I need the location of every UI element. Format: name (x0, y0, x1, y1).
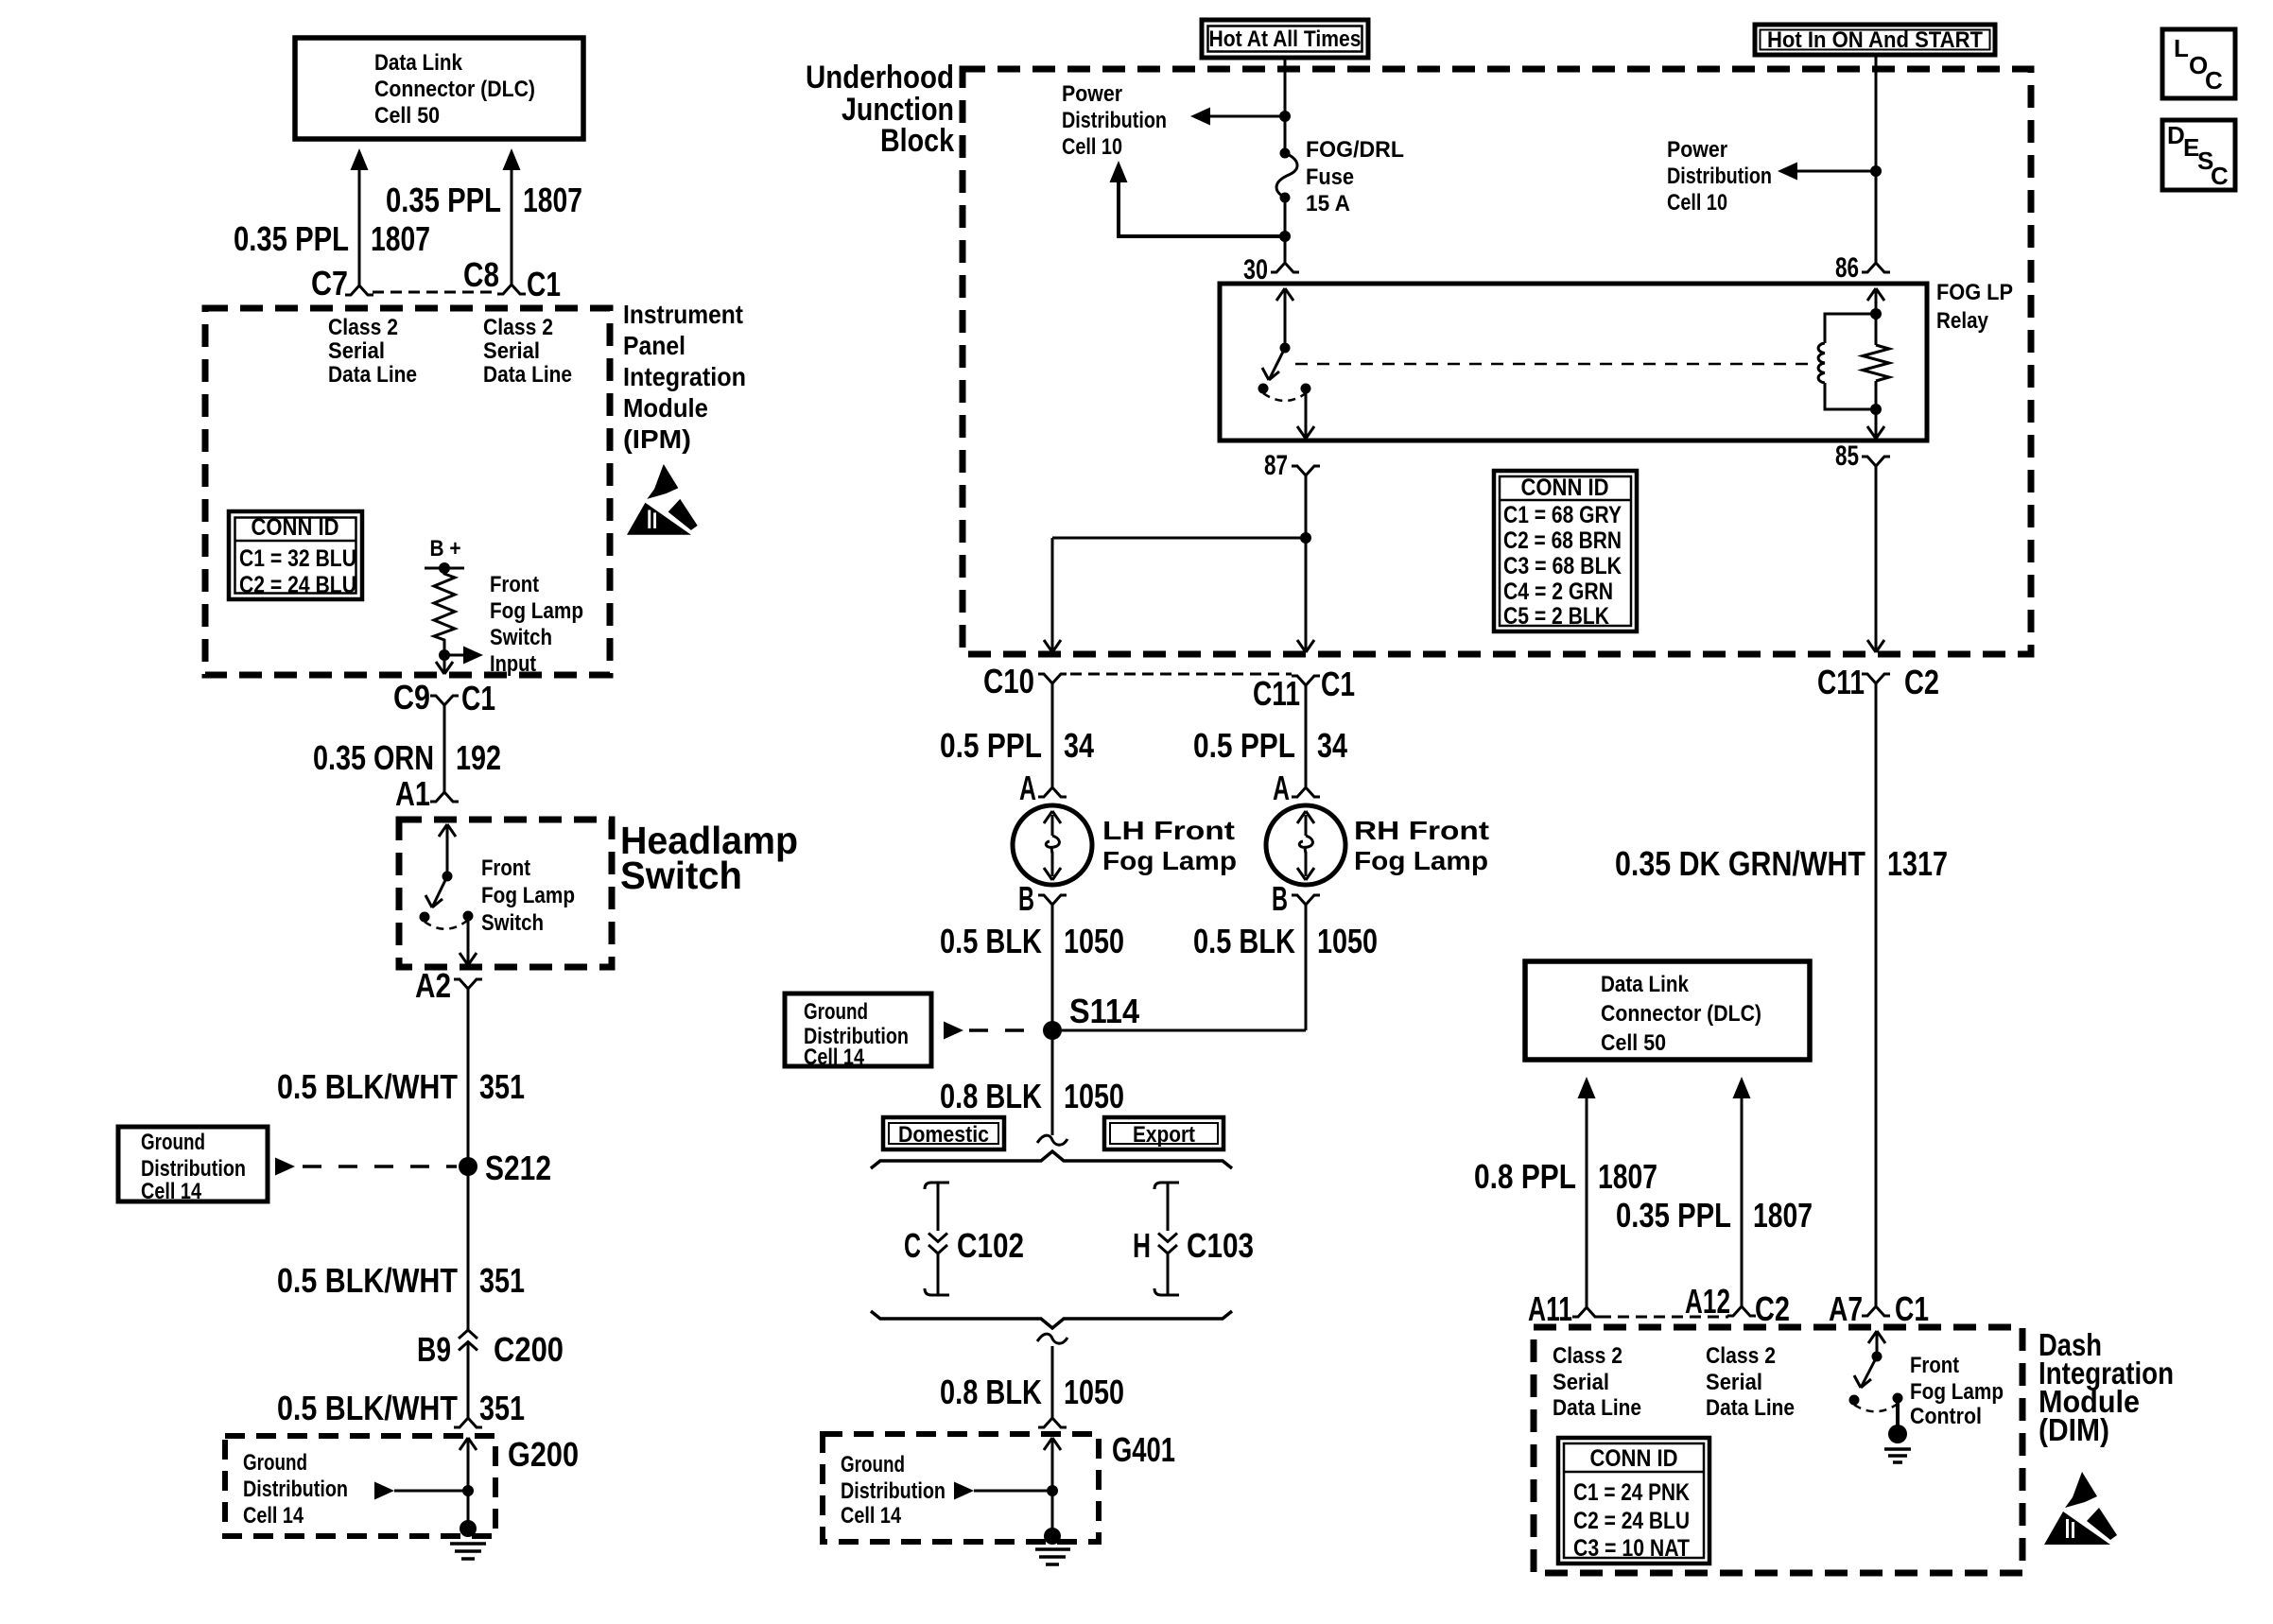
svg-text:C102: C102 (957, 1226, 1024, 1265)
relay coil (inductor) (1818, 314, 1876, 409)
label 0.35 PPL 1807 (A12) (1616, 1196, 1813, 1235)
wire C10 to LH fog lamp (1051, 683, 1054, 786)
arrow: to power distribution cell 10 (up) (1110, 161, 1286, 238)
svg-text:87: 87 (1264, 450, 1288, 481)
svg-text:C11: C11 (1253, 674, 1300, 713)
svg-text:Cell 14: Cell 14 (243, 1503, 304, 1529)
text Power Distribution Cell 10 (left) (1062, 81, 1167, 160)
svg-text:Fog Lamp: Fog Lamp (490, 598, 583, 624)
wire: export option branch (1154, 1183, 1179, 1295)
relay switch common (1276, 288, 1293, 354)
connector A12 / C2 (1685, 1282, 1790, 1328)
svg-text:Class 2: Class 2 (483, 315, 553, 340)
svg-text:1050: 1050 (1064, 1373, 1124, 1411)
svg-text:Cell 10: Cell 10 (1062, 134, 1122, 160)
label 0.5 PPL 34 (RH) (1193, 726, 1347, 765)
svg-text:A12: A12 (1685, 1282, 1730, 1321)
label 0.8 BLK 1050 (upper) (940, 1077, 1124, 1115)
module box: Underhood Junction Block (963, 69, 2031, 654)
svg-text:Distribution: Distribution (141, 1156, 246, 1182)
box: Data Link Connector (DLC) Cell 50 (top-left) (295, 38, 583, 139)
relay switch output (1297, 389, 1314, 439)
svg-text:C2: C2 (1904, 663, 1939, 701)
svg-text:Cell 14: Cell 14 (141, 1179, 202, 1204)
wire: ignition feed (1875, 55, 1878, 262)
svg-text:Integration: Integration (623, 362, 746, 391)
svg-text:C3 = 68 BLK: C3 = 68 BLK (1503, 553, 1622, 579)
text Front Fog Lamp Switch Input (490, 572, 583, 677)
svg-text:C11: C11 (1817, 663, 1865, 701)
svg-text:0.35 PPL: 0.35 PPL (1616, 1196, 1731, 1235)
svg-text:Serial: Serial (328, 338, 385, 364)
svg-text:C1 = 32 BLU: C1 = 32 BLU (239, 545, 356, 572)
relay box: FOG LP Relay (1220, 284, 1927, 441)
svg-text:351: 351 (479, 1261, 525, 1300)
connector C11 / C2 (relay 85) (1817, 663, 1939, 701)
ground: front fog lamp control (1884, 1398, 1911, 1462)
pin B (RH) (1272, 879, 1320, 918)
label 0.35 PPL 1807 (C7 wire) (234, 219, 430, 258)
lamp: LH Front Fog Lamp (1013, 805, 1092, 885)
ground box: Ground Distribution Cell 14 (G200) (225, 1435, 579, 1536)
svg-text:1807: 1807 (1753, 1196, 1813, 1235)
label Headlamp Switch (620, 819, 798, 897)
svg-text:B: B (1018, 879, 1034, 918)
brace: option merge bottom (871, 1311, 1232, 1328)
arrow: ground distribution tie (G401) (954, 1482, 1058, 1500)
svg-text:C4 = 2 GRN: C4 = 2 GRN (1503, 579, 1613, 605)
svg-text:CONN ID: CONN ID (1590, 1445, 1678, 1472)
svg-text:Distribution: Distribution (1062, 108, 1167, 133)
svg-text:Distribution: Distribution (1667, 164, 1772, 189)
wire branch to C10 (1052, 538, 1306, 652)
wire: switch output to A2 (460, 916, 477, 965)
label 0.35 PPL 1807 (C8 wire) (386, 181, 582, 219)
svg-text:Hot In ON And START: Hot In ON And START (1767, 27, 1983, 53)
svg-text:B: B (1272, 879, 1288, 918)
svg-text:0.5 PPL: 0.5 PPL (940, 726, 1042, 765)
svg-text:Front: Front (481, 855, 530, 881)
node: fuse output junction (1279, 231, 1291, 242)
svg-text:A: A (1273, 769, 1290, 807)
svg-text:A: A (1019, 769, 1036, 807)
connector A1 (395, 774, 459, 813)
svg-text:Power: Power (1667, 137, 1727, 163)
wire: domestic option branch (925, 1183, 949, 1295)
wire A2 to S212 to B9 (467, 989, 470, 1330)
wire: headlamp switch input arrow (439, 824, 456, 876)
ground G401 (1035, 1491, 1070, 1564)
switch: front fog lamp switch (420, 872, 474, 929)
node: switch input junction (439, 649, 450, 661)
label 0.5 BLK 1050 (RH) (1193, 922, 1378, 960)
svg-text:0.5 BLK: 0.5 BLK (940, 922, 1042, 960)
label LH Front Fog Lamp (1102, 816, 1237, 875)
label 0.8 PPL 1807 (1474, 1157, 1657, 1196)
svg-text:Class 2: Class 2 (1706, 1343, 1776, 1369)
node: power distribution tap (right) (1870, 165, 1882, 177)
svg-text:RH Front: RH Front (1354, 816, 1489, 845)
svg-text:C2 = 24 BLU: C2 = 24 BLU (239, 572, 356, 598)
svg-text:0.5 BLK/WHT: 0.5 BLK/WHT (277, 1261, 458, 1300)
node S114 splice (1043, 992, 1139, 1040)
label 0.5 BLK/WHT 351 (lower) (277, 1389, 525, 1427)
svg-text:G401: G401 (1112, 1430, 1175, 1469)
connector C103 (pin H) (1133, 1226, 1254, 1265)
lamp: RH Front Fog Lamp (1266, 805, 1345, 885)
svg-text:A1: A1 (395, 774, 430, 813)
text Ground Distribution Cell 14 (G200) (243, 1450, 348, 1529)
text Front Fog Lamp Switch (481, 855, 575, 936)
svg-text:Cell 14: Cell 14 (841, 1503, 902, 1529)
svg-text:Fog Lamp: Fog Lamp (481, 883, 575, 908)
connector at G401 (1038, 1418, 1067, 1427)
wire LH lamp to S114 (1051, 905, 1054, 1030)
svg-text:Switch: Switch (620, 854, 742, 897)
label RH Front Fog Lamp (1354, 816, 1489, 875)
pin B (LH) (1018, 879, 1067, 918)
svg-text:0.8 PPL: 0.8 PPL (1474, 1157, 1576, 1196)
connector body dashed line A11-A12 (1600, 1316, 1728, 1319)
dashed reference to S212 (275, 1158, 457, 1176)
connector C9 / C1 (393, 678, 495, 717)
connector body dashed line C10-C11 (1070, 673, 1292, 676)
svg-text:A11: A11 (1528, 1289, 1572, 1328)
svg-text:0.35 PPL: 0.35 PPL (234, 219, 349, 258)
svg-text:0.8 BLK: 0.8 BLK (940, 1077, 1042, 1115)
box: Ground Distribution Cell 14 (S212) (118, 1127, 268, 1204)
option box: Domestic (883, 1117, 1004, 1149)
svg-text:Switch: Switch (481, 910, 544, 936)
pin A (RH) (1273, 769, 1320, 807)
wire into G401 (1044, 1438, 1061, 1491)
svg-text:Export: Export (1133, 1122, 1195, 1148)
connector A7 / C1 (1829, 1289, 1929, 1328)
arrow: ground distribution tie (G200) (374, 1482, 474, 1500)
svg-text:1807: 1807 (371, 219, 430, 258)
wire to G401 (1051, 1346, 1054, 1417)
pin 86 (1835, 252, 1890, 284)
svg-text:Connector (DLC): Connector (DLC) (1601, 1001, 1761, 1027)
svg-text:C: C (2205, 66, 2223, 95)
svg-text:Switch: Switch (490, 625, 552, 650)
svg-text:Ground: Ground (243, 1450, 307, 1476)
ground box: Ground Distribution Cell 14 (G401) (823, 1430, 1175, 1542)
svg-text:Input: Input (490, 651, 536, 677)
svg-text:Serial: Serial (1706, 1370, 1762, 1395)
wire C9 to A1 (443, 705, 446, 792)
svg-text:Data Link: Data Link (1601, 972, 1690, 997)
svg-text:Front: Front (490, 572, 539, 597)
svg-text:C3 = 10 NAT: C3 = 10 NAT (1573, 1535, 1690, 1562)
box: Ground Distribution Cell 14 (S114) (785, 993, 931, 1070)
svg-text:34: 34 (1064, 726, 1094, 765)
svg-text:0.5 PPL: 0.5 PPL (1193, 726, 1295, 765)
wire A11 to DLC with arrow (1578, 1077, 1596, 1307)
connector C11 / C1 (1253, 665, 1355, 713)
svg-text:LH Front: LH Front (1102, 816, 1235, 845)
relay switch blade (1262, 348, 1285, 380)
connector C7 (311, 264, 373, 302)
svg-text:192: 192 (456, 738, 501, 777)
svg-text:0.5 BLK/WHT: 0.5 BLK/WHT (277, 1389, 458, 1427)
wire 85 out of UJB (1867, 466, 1884, 652)
svg-text:C1 = 24 PNK: C1 = 24 PNK (1573, 1479, 1690, 1506)
text Front Fog Lamp Control (1910, 1353, 2004, 1429)
svg-text:C8: C8 (463, 255, 499, 294)
svg-text:Fog Lamp: Fog Lamp (1354, 846, 1488, 875)
svg-text:C5 = 2 BLK: C5 = 2 BLK (1503, 603, 1609, 630)
text Ground Distribution Cell 14 (G401) (841, 1452, 946, 1529)
svg-text:C10: C10 (983, 662, 1034, 700)
text Power Distribution Cell 10 (right) (1667, 137, 1772, 216)
svg-text:Distribution: Distribution (243, 1477, 348, 1502)
wire 87 splice (1300, 475, 1311, 652)
label Underhood Junction Block (806, 60, 954, 159)
svg-text:351: 351 (479, 1389, 525, 1427)
svg-text:G200: G200 (508, 1435, 579, 1474)
label 0.5 BLK 1050 (LH) (940, 922, 1124, 960)
arrow out of IPM at C9 (436, 662, 453, 674)
svg-text:1807: 1807 (1598, 1157, 1657, 1196)
svg-text:0.5 BLK: 0.5 BLK (1193, 922, 1295, 960)
svg-text:C: C (904, 1226, 921, 1265)
svg-text:C1: C1 (1321, 665, 1355, 703)
arrow out at C10 (1044, 640, 1061, 652)
DESC reference box (2162, 120, 2235, 190)
header box: Hot In ON And START (1755, 25, 1995, 55)
svg-text:Control: Control (1910, 1404, 1982, 1429)
ESD symbol (IPM) (627, 464, 698, 535)
module box: Instrument Panel Integration Module (IPM) (205, 308, 610, 675)
label FOG LP Relay (1936, 280, 2013, 334)
svg-text:Cell 50: Cell 50 (1601, 1030, 1666, 1056)
svg-text:FOG/DRL: FOG/DRL (1306, 137, 1404, 163)
svg-text:CONN ID: CONN ID (252, 514, 339, 541)
svg-text:Front: Front (1910, 1353, 1959, 1378)
svg-text:34: 34 (1317, 726, 1347, 765)
svg-text:C1: C1 (461, 679, 495, 717)
svg-text:1050: 1050 (1064, 922, 1124, 960)
wire C7 to DLC with arrow (351, 148, 369, 285)
svg-text:351: 351 (479, 1067, 525, 1106)
option box: Export (1104, 1117, 1223, 1149)
connector C8 / C1 (463, 255, 561, 303)
svg-text:C: C (2211, 162, 2229, 190)
svg-text:S212: S212 (485, 1149, 551, 1187)
wire A12 to DLC with arrow (1733, 1077, 1751, 1306)
svg-text:Cell 14: Cell 14 (804, 1045, 865, 1070)
pin 87 (1264, 450, 1320, 481)
wire C11 to RH fog lamp (1305, 685, 1308, 786)
svg-text:B +: B + (430, 536, 461, 561)
svg-text:C1: C1 (1895, 1289, 1929, 1328)
connector A2 (415, 966, 482, 1005)
svg-text:FOG LP: FOG LP (1936, 280, 2013, 305)
box: Data Link Connector (DLC) Cell 50 (right) (1525, 961, 1810, 1060)
svg-text:Data Line: Data Line (1553, 1395, 1641, 1421)
text Class 2 Serial Data Line (A11) (1553, 1343, 1641, 1421)
ground G200 (450, 1491, 486, 1559)
svg-text:C200: C200 (494, 1330, 564, 1369)
CONN ID table (IPM) (229, 511, 362, 599)
svg-text:1050: 1050 (1317, 922, 1378, 960)
wire: switch input to output arrow (444, 645, 465, 673)
header box: Hot At All Times (1202, 20, 1368, 58)
text Class 2 Serial Data Line (C8) (483, 315, 572, 388)
svg-text:1807: 1807 (523, 181, 582, 219)
relay coil output (1867, 404, 1884, 439)
wire S114 down (1051, 1030, 1054, 1135)
svg-text:Module: Module (623, 393, 708, 423)
resistor: front fog lamp switch input pull-up (434, 568, 455, 645)
svg-text:Class 2: Class 2 (1553, 1343, 1622, 1369)
svg-text:Ground: Ground (804, 999, 868, 1025)
relay contacts (1258, 384, 1311, 402)
svg-text:C2 = 24 BLU: C2 = 24 BLU (1573, 1508, 1690, 1534)
svg-text:0.8 BLK: 0.8 BLK (940, 1373, 1042, 1411)
fuse FOG/DRL 15 A (1276, 148, 1297, 203)
pin A (LH) (1019, 769, 1067, 807)
svg-text:Block: Block (880, 123, 954, 159)
wire: fuse output (1284, 198, 1287, 262)
wire C8-C1 to DLC with arrow (503, 148, 521, 285)
pin 30 (1243, 254, 1299, 285)
wire break symbol (lower) (1037, 1334, 1067, 1343)
node S212 splice (459, 1149, 551, 1187)
connector at G200 (454, 1418, 482, 1427)
wire C2 to DIM A7 (1875, 683, 1878, 1305)
connector B9 / C200 (417, 1330, 564, 1369)
text FOG/DRL Fuse 15 A (1306, 137, 1404, 216)
svg-text:Connector (DLC): Connector (DLC) (374, 77, 535, 102)
label 0.35 ORN 192 (313, 738, 501, 777)
svg-text:A2: A2 (415, 966, 451, 1005)
svg-text:0.5 BLK/WHT: 0.5 BLK/WHT (277, 1067, 458, 1106)
connector C102 (pin C) (904, 1226, 1024, 1265)
svg-text:Fuse: Fuse (1306, 164, 1354, 190)
svg-text:Distribution: Distribution (841, 1478, 946, 1504)
label Instrument Panel Integration Module (IPM) (623, 300, 746, 454)
svg-text:Relay: Relay (1936, 308, 1989, 334)
svg-text:A7: A7 (1829, 1289, 1863, 1328)
svg-text:CONN ID: CONN ID (1521, 475, 1609, 501)
connector C10 (983, 662, 1067, 700)
svg-text:Power: Power (1062, 81, 1122, 107)
svg-text:0.35 PPL: 0.35 PPL (386, 181, 501, 219)
svg-text:0.35 ORN: 0.35 ORN (313, 738, 434, 777)
svg-text:Cell 50: Cell 50 (374, 103, 440, 129)
svg-text:D: D (2167, 121, 2185, 149)
node: power distribution tap (1279, 111, 1291, 122)
svg-text:Data Line: Data Line (483, 362, 572, 388)
svg-text:Fog Lamp: Fog Lamp (1102, 846, 1237, 875)
svg-text:Fog Lamp: Fog Lamp (1910, 1379, 2004, 1405)
connector A11 (1528, 1289, 1601, 1328)
module box: Headlamp Switch (399, 820, 612, 967)
arrow: to power distribution cell 10 (right) (1778, 163, 1876, 181)
svg-text:L: L (2174, 34, 2189, 62)
svg-text:C1 = 68 GRY: C1 = 68 GRY (1503, 502, 1622, 528)
svg-text:B9: B9 (417, 1330, 451, 1369)
svg-text:30: 30 (1243, 254, 1268, 285)
svg-text:Cell 10: Cell 10 (1667, 190, 1727, 216)
arrowhead: switch input signal (463, 647, 483, 665)
wire into G200 (460, 1438, 477, 1491)
CONN ID table (DIM) (1558, 1438, 1709, 1564)
brace: option split top (871, 1151, 1232, 1168)
svg-text:0.35 DK GRN/WHT: 0.35 DK GRN/WHT (1615, 844, 1865, 883)
text Class 2 Serial Data Line (A12) (1706, 1343, 1795, 1421)
switch: front fog lamp control (1849, 1331, 1903, 1411)
svg-text:Domestic: Domestic (898, 1122, 989, 1148)
relay operate dashed line (1295, 363, 1813, 366)
svg-text:Instrument: Instrument (623, 300, 743, 329)
svg-text:1317: 1317 (1887, 844, 1948, 883)
dashed reference to S114 (944, 1022, 1041, 1040)
svg-text:C7: C7 (311, 264, 348, 302)
svg-text:S114: S114 (1069, 992, 1139, 1030)
svg-text:86: 86 (1835, 252, 1859, 284)
svg-text:Data Line: Data Line (1706, 1395, 1795, 1421)
connector body dashed line C7-C8 (373, 291, 498, 294)
svg-text:C103: C103 (1187, 1226, 1254, 1265)
svg-text:C2: C2 (1755, 1289, 1790, 1328)
ESD symbol (DIM) (2044, 1472, 2117, 1545)
svg-text:(IPM): (IPM) (623, 424, 691, 454)
label 0.35 DK GRN/WHT 1317 (1615, 844, 1948, 883)
svg-text:Hot At All Times: Hot At All Times (1209, 26, 1362, 52)
svg-text:Panel: Panel (623, 331, 685, 360)
svg-text:(DIM): (DIM) (2039, 1412, 2109, 1447)
CONN ID table (UJB) (1494, 471, 1637, 631)
label 0.5 BLK/WHT 351 (middle) (277, 1261, 525, 1300)
svg-text:Ground: Ground (141, 1130, 205, 1155)
arrow out at C11 (1297, 640, 1314, 652)
svg-text:Class 2: Class 2 (328, 315, 398, 340)
svg-text:15 A: 15 A (1306, 191, 1350, 216)
label Dash Integration Module (DIM) (2039, 1327, 2174, 1447)
svg-text:H: H (1133, 1226, 1151, 1265)
node B+ (425, 536, 464, 574)
svg-text:C9: C9 (393, 678, 430, 717)
arrow: to power distribution cell 10 (left) (1190, 108, 1285, 126)
svg-text:Serial: Serial (1553, 1370, 1609, 1395)
pin 85 (1835, 441, 1890, 472)
svg-text:Data Line: Data Line (328, 362, 417, 388)
svg-text:85: 85 (1835, 441, 1859, 472)
label 0.8 BLK 1050 (lower) (940, 1373, 1124, 1411)
wire RH lamp to S114 (1062, 905, 1306, 1030)
wire: hot at all times feed (1284, 58, 1287, 153)
svg-text:Ground: Ground (841, 1452, 905, 1477)
svg-text:C1: C1 (527, 265, 561, 303)
svg-text:C2 = 68 BRN: C2 = 68 BRN (1503, 527, 1622, 554)
LOC reference box (2162, 29, 2235, 98)
svg-text:Data Link: Data Link (374, 50, 463, 76)
label 0.5 PPL 34 (LH) (940, 726, 1094, 765)
svg-text:1050: 1050 (1064, 1077, 1124, 1115)
module box: Dash Integration Module (DIM) (1534, 1327, 2022, 1573)
wire break symbol (upper) (1037, 1135, 1067, 1145)
svg-text:Serial: Serial (483, 338, 540, 364)
svg-text:Underhood: Underhood (806, 60, 954, 95)
relay coil input (1867, 288, 1884, 320)
relay coil (resistor) (1863, 314, 1889, 409)
label 0.5 BLK/WHT 351 (upper) (277, 1067, 525, 1106)
wire B9 to G200 (467, 1342, 470, 1418)
text Class 2 Serial Data Line (C7) (328, 315, 417, 388)
